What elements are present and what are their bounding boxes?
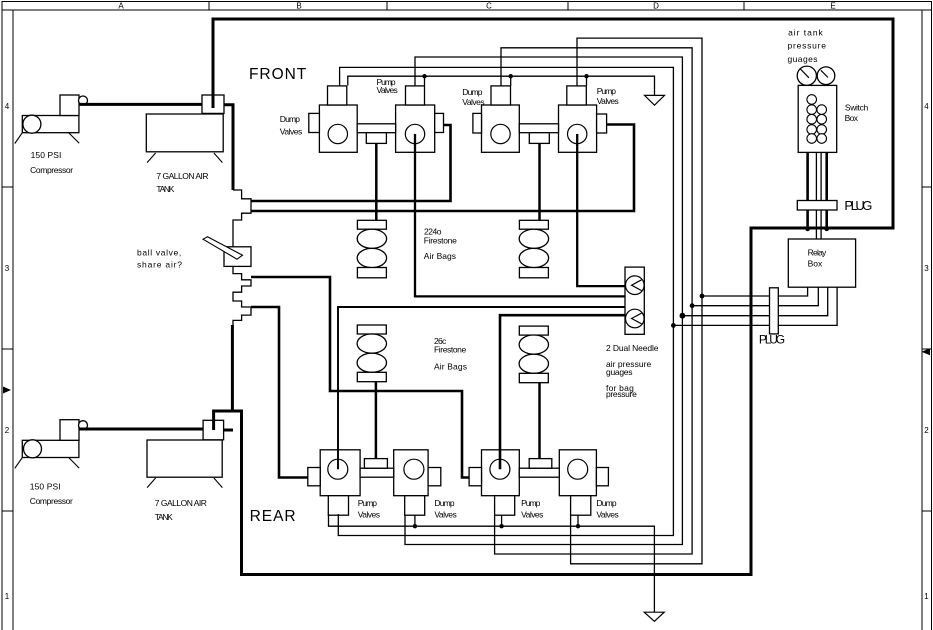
pipe B3-B4 xyxy=(519,468,559,477)
svg-text:TANK: TANK xyxy=(155,512,173,522)
leader line T2 left xyxy=(147,478,156,488)
hose manifold to rear junction spine xyxy=(231,325,234,411)
dual needle gauge dial 2 xyxy=(626,309,645,328)
leader line T1 right xyxy=(214,153,223,163)
svg-text:B: B xyxy=(296,2,301,11)
wire relay to bus x692 xyxy=(692,287,818,306)
air bag AB4 bottom plate xyxy=(519,373,548,382)
valve V3 port circle xyxy=(491,124,510,143)
valve V4 body xyxy=(559,105,597,152)
valve B1 port circle xyxy=(328,459,348,479)
svg-text:Compressor: Compressor xyxy=(30,165,73,175)
valve V2 right tab xyxy=(435,113,444,132)
wire valve V3 coil to bus to valve B3 coil xyxy=(495,48,692,554)
dot V3 ground xyxy=(509,74,513,78)
dual needle gauge dial 1 xyxy=(626,276,645,295)
valve V1 coil xyxy=(328,86,347,105)
svg-text:Valves: Valves xyxy=(462,97,484,107)
switch box xyxy=(798,85,837,152)
valve B1 left tab xyxy=(308,468,320,486)
svg-text:7 GALLON AIR: 7 GALLON AIR xyxy=(156,171,208,181)
dot relay wire x702 xyxy=(700,294,705,299)
svg-text:C: C xyxy=(486,2,492,11)
dot B4 ground xyxy=(576,524,580,528)
air tank T1 xyxy=(146,114,223,152)
air bag AB1 top plate xyxy=(357,220,386,229)
valve B2 body xyxy=(394,450,428,496)
valve B2 coil xyxy=(405,496,425,516)
hose valve B3 center to gauge xyxy=(500,315,625,469)
svg-text:Box: Box xyxy=(845,113,859,123)
svg-text:3: 3 xyxy=(924,264,929,273)
dual needle gauge dial 1 needle xyxy=(632,280,642,291)
air tank pressure gauge G1 xyxy=(797,66,816,85)
hose air bag AB4 to port B3-B4 xyxy=(538,383,541,459)
hose valve V2 center to gauge xyxy=(415,134,625,296)
svg-text:Valves: Valves xyxy=(280,126,302,136)
hose manifold port P2 to valve V4 tab xyxy=(251,125,634,212)
svg-text:Dump: Dump xyxy=(434,498,454,508)
wire valve V2 coil ground stub xyxy=(424,76,426,86)
leader line T1 left xyxy=(147,153,156,163)
valve B4 body xyxy=(559,450,596,496)
dot switch power right xyxy=(824,226,829,231)
svg-text:TANK: TANK xyxy=(156,184,174,194)
valve B1 body xyxy=(320,450,360,496)
svg-text:Dump: Dump xyxy=(280,114,300,124)
compressor CP2 head xyxy=(60,420,79,441)
gauge G2 needle xyxy=(821,70,828,77)
svg-text:ball valve,: ball valve, xyxy=(137,247,181,257)
wire valve V3 coil ground stub xyxy=(510,76,512,86)
air bag AB3 top plate xyxy=(357,325,386,334)
compressor CP2 fitting bump xyxy=(79,421,88,430)
wire switch box to relay box thin pair xyxy=(816,152,821,239)
svg-text:D: D xyxy=(653,2,659,11)
manifold staircase lower xyxy=(233,266,251,325)
svg-text:Firestone: Firestone xyxy=(424,235,457,245)
switch box toggle circles xyxy=(807,95,827,144)
valve B3 port circle xyxy=(490,459,510,479)
compressor CP1 head xyxy=(60,95,79,116)
svg-text:2: 2 xyxy=(5,426,10,435)
wire valve B3 coil ground stub xyxy=(501,515,503,526)
valve B3 left tab xyxy=(469,468,481,486)
wire rear ground bus xyxy=(329,514,655,612)
svg-text:FRONT: FRONT xyxy=(249,66,307,83)
air tank T2 xyxy=(147,440,222,477)
valve V4 port circle xyxy=(568,124,587,143)
wire valve B4 coil ground stub xyxy=(577,515,579,526)
ball valve box xyxy=(224,247,251,267)
svg-text:Valves: Valves xyxy=(597,96,619,106)
svg-text:A: A xyxy=(118,2,124,11)
compressor CP2 body xyxy=(22,440,79,457)
valve B4 port circle xyxy=(568,459,588,479)
valve V1 body xyxy=(319,105,357,152)
wire relay to bus x702 xyxy=(702,287,808,296)
valve V2 coil xyxy=(406,86,425,105)
wire valve V2 coil to bus to valve B2 coil xyxy=(405,57,682,545)
valve V4 right tab xyxy=(597,114,607,133)
hose air bag AB3 to port B1-B2 xyxy=(375,382,378,459)
dot B2 ground xyxy=(413,524,417,528)
valve V2 body xyxy=(396,105,435,152)
hose manifold port P1 to valve V2 tab xyxy=(251,125,451,201)
air tank T1 junction box xyxy=(202,95,224,113)
dot V4 ground xyxy=(584,74,588,78)
port V1-V2 xyxy=(366,133,386,144)
port B3-B4 xyxy=(529,459,552,469)
pipe V3-V4 xyxy=(519,124,558,133)
valve V3 coil xyxy=(491,86,511,105)
air bag AB2 bellows xyxy=(519,229,548,248)
svg-text:2: 2 xyxy=(924,426,929,435)
relay box xyxy=(788,239,855,287)
svg-text:Air Bags: Air Bags xyxy=(434,362,467,372)
hose manifold port P3 to valve B3 tab xyxy=(251,277,469,478)
border label strip line xyxy=(2,9,932,11)
valve B4 coil xyxy=(571,496,591,516)
wire valve V1 coil to bus to valve B1 coil xyxy=(338,67,673,535)
svg-text:Valves: Valves xyxy=(377,85,398,95)
svg-text:Compressor: Compressor xyxy=(30,496,73,506)
wire relay to bus x673 xyxy=(673,287,837,325)
svg-text:Dump: Dump xyxy=(462,87,482,97)
dual needle gauge body xyxy=(625,267,644,334)
border centering arrow right xyxy=(922,348,931,355)
valve B4 right tab xyxy=(596,468,608,486)
svg-text:PLUG: PLUG xyxy=(759,332,785,346)
hose main supply loop tank1 to tank2 xyxy=(213,19,893,575)
svg-text:4: 4 xyxy=(924,102,929,111)
svg-text:4: 4 xyxy=(5,102,10,111)
wire valve V4 coil ground stub xyxy=(586,76,588,86)
leader line CP1 left xyxy=(15,133,22,144)
svg-text:pressure: pressure xyxy=(606,389,637,399)
hose port V1-V2 to air bag AB1 xyxy=(375,143,378,220)
valve B3 body xyxy=(482,450,520,496)
compressor CP1 fitting bump xyxy=(79,96,88,105)
air bag AB4 top plate xyxy=(519,326,548,335)
plug bar 1 xyxy=(797,201,837,211)
valve V3 left tab xyxy=(473,113,482,133)
hose port V3-V4 to air bag AB2 xyxy=(538,143,541,220)
svg-text:REAR: REAR xyxy=(250,508,296,525)
ball valve handle xyxy=(203,237,243,259)
air bag AB1 bellows xyxy=(357,229,386,248)
dot V2 ground xyxy=(422,74,426,78)
svg-text:guages: guages xyxy=(788,54,818,64)
svg-text:air tank: air tank xyxy=(788,28,823,38)
svg-text:share air?: share air? xyxy=(137,259,182,269)
svg-text:Relay: Relay xyxy=(808,248,827,258)
border centering arrow left xyxy=(3,387,11,394)
dot switch power left xyxy=(805,226,810,231)
svg-text:Valves: Valves xyxy=(596,509,618,519)
wire front ground bus xyxy=(348,76,655,95)
svg-text:150 PSI: 150 PSI xyxy=(31,150,62,160)
valve B2 right tab xyxy=(428,468,441,486)
valve V2 port circle xyxy=(405,124,424,143)
border row ticks xyxy=(2,187,932,511)
air bag AB3 bottom plate xyxy=(357,372,386,381)
wire relay to bus x682 xyxy=(682,287,827,316)
COMPONENT WHITE SHAPES xyxy=(22,66,855,515)
leader line CP2 left xyxy=(15,458,22,469)
svg-text:pressure: pressure xyxy=(788,41,827,51)
valve V4 coil xyxy=(567,86,587,105)
air bag AB3 bellows xyxy=(357,334,386,353)
svg-text:Dump: Dump xyxy=(596,498,616,508)
svg-text:Valves: Valves xyxy=(358,509,380,519)
hose valve B1 center to gauge xyxy=(338,307,625,469)
border column ticks xyxy=(209,2,744,11)
air bag AB4 bellows xyxy=(519,335,548,354)
compressor CP1 end cap circle xyxy=(23,115,41,133)
valve V1 left tab xyxy=(309,113,320,132)
valve B3 coil xyxy=(495,496,515,516)
valve V3 body xyxy=(482,105,520,152)
valve B2 port circle xyxy=(404,459,424,479)
air bag AB1 bottom plate xyxy=(357,268,386,278)
dot relay wire x673 xyxy=(671,323,676,328)
svg-text:Valves: Valves xyxy=(521,509,543,519)
svg-text:Pump: Pump xyxy=(358,498,378,508)
svg-text:Switch: Switch xyxy=(845,103,869,113)
hose tank junction 1 stub to manifold xyxy=(224,105,233,190)
air tank T2 junction box xyxy=(203,420,224,440)
port B1-B2 xyxy=(364,459,387,469)
hose valve V4 center to gauge xyxy=(577,134,625,286)
dot relay wire x692 xyxy=(690,303,695,308)
svg-text:7 GALLON AIR: 7 GALLON AIR xyxy=(155,498,207,508)
wire valve V4 coil to bus to valve B4 coil xyxy=(571,38,702,564)
svg-text:guages: guages xyxy=(606,367,633,377)
pipe B1-B2 xyxy=(360,468,394,477)
valve V1 port circle xyxy=(328,124,347,143)
leader line CP1 right xyxy=(69,133,80,144)
dot relay wire x682 xyxy=(680,313,686,319)
svg-text:Box: Box xyxy=(808,258,823,268)
valve B1 coil xyxy=(328,496,348,516)
svg-text:Pump: Pump xyxy=(521,498,541,508)
pipe V1-V2 xyxy=(357,124,395,133)
svg-text:1: 1 xyxy=(924,592,929,601)
svg-text:3: 3 xyxy=(5,264,10,273)
svg-text:Valves: Valves xyxy=(434,509,456,519)
wire valve B2 coil ground stub xyxy=(414,515,416,526)
gauge G1 needle xyxy=(801,69,809,78)
svg-text:2 Dual Needle: 2 Dual Needle xyxy=(606,343,659,353)
hose manifold port P4 to valve B1 tab xyxy=(251,307,308,478)
svg-text:1: 1 xyxy=(5,592,10,601)
hose compressor CP2 to tank junction 2 xyxy=(79,428,203,431)
svg-text:Air Bags: Air Bags xyxy=(424,251,456,261)
svg-text:Pump: Pump xyxy=(597,86,617,96)
svg-text:Firestone: Firestone xyxy=(434,345,466,355)
port V3-V4 xyxy=(529,133,549,144)
air tank pressure gauge G2 xyxy=(817,67,835,85)
leader line T2 right xyxy=(214,478,223,488)
plug bar 2 xyxy=(770,288,779,334)
hose compressor CP1 to tank junction xyxy=(79,103,202,106)
compressor CP2 end cap circle xyxy=(24,440,42,458)
svg-text:150 PSI: 150 PSI xyxy=(30,482,61,492)
ground symbol rear xyxy=(644,612,664,621)
hose tank junction 2 stub xyxy=(224,429,233,432)
svg-text:PLUG: PLUG xyxy=(844,198,872,213)
dot B3 ground xyxy=(499,524,503,528)
air bag AB2 top plate xyxy=(519,220,548,229)
air bag AB2 bottom plate xyxy=(519,268,548,278)
svg-text:E: E xyxy=(830,2,835,11)
compressor CP1 body xyxy=(22,116,79,133)
manifold staircase upper xyxy=(233,190,251,247)
dual needle gauge dial 2 needle xyxy=(632,313,642,324)
leader line CP2 right xyxy=(69,458,80,469)
wire switch box power thick pair xyxy=(808,152,827,228)
ground symbol front xyxy=(645,95,665,105)
